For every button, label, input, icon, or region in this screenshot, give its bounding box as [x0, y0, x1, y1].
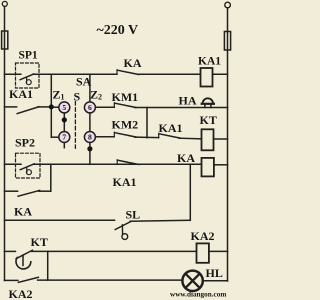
svg-text:KA: KA: [124, 56, 142, 70]
svg-text:KM2: KM2: [112, 118, 139, 132]
svg-text:SP1: SP1: [19, 50, 38, 62]
svg-text:KT: KT: [31, 235, 48, 249]
svg-text:KA2: KA2: [9, 287, 33, 300]
svg-text:S: S: [74, 90, 81, 104]
svg-text:~220 V: ~220 V: [97, 23, 139, 38]
svg-text:6: 6: [88, 103, 92, 112]
svg-text:SL: SL: [126, 208, 141, 222]
svg-text:www.diangon.com: www.diangon.com: [170, 291, 226, 299]
svg-text:KM1: KM1: [112, 90, 139, 104]
svg-text:7: 7: [62, 133, 66, 142]
svg-text:SA: SA: [76, 75, 92, 89]
svg-text:KA1: KA1: [9, 87, 33, 101]
svg-text:KA: KA: [177, 151, 195, 165]
svg-text:KA1: KA1: [113, 175, 137, 189]
svg-text:KA1: KA1: [159, 121, 183, 135]
svg-text:KT: KT: [200, 113, 217, 127]
svg-text:HL: HL: [206, 266, 223, 280]
svg-text:KA1: KA1: [198, 56, 221, 68]
svg-text:8: 8: [88, 133, 92, 142]
svg-text:5: 5: [62, 103, 66, 112]
svg-text:SP2: SP2: [15, 136, 35, 150]
svg-text:HA: HA: [179, 94, 197, 108]
svg-text:KA2: KA2: [191, 229, 215, 243]
svg-text:KA: KA: [14, 205, 32, 219]
